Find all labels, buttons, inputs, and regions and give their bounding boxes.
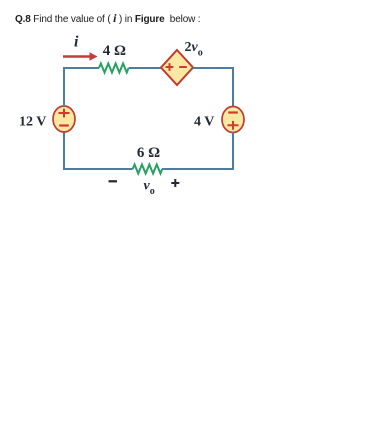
current arrow i <box>63 52 98 60</box>
wire top-left segment <box>64 67 99 69</box>
label 4 ohm <box>103 43 126 59</box>
label vo <box>144 179 155 198</box>
resistor 6ohm zigzag <box>133 165 163 174</box>
svg-text:vo: vo <box>144 179 155 198</box>
label 4 V <box>194 114 214 129</box>
wire left upper segment <box>63 67 65 107</box>
polarity plus for vo <box>171 179 179 187</box>
wire bottom-right segment <box>162 168 233 170</box>
svg-text:2vo: 2vo <box>185 40 203 59</box>
voltage source 4V circle <box>222 107 244 133</box>
dependent source plus sign <box>166 63 174 71</box>
svg-text:4 Ω: 4 Ω <box>103 43 126 59</box>
wire bottom-left segment <box>64 168 133 170</box>
label i current <box>74 34 79 51</box>
label 6 ohm <box>137 145 160 161</box>
wire top-middle segment <box>129 67 161 69</box>
dependent source U1 diamond <box>161 50 193 85</box>
4V source minus sign <box>228 111 238 113</box>
label 12 V <box>19 114 46 129</box>
dependent source minus sign <box>179 66 187 68</box>
svg-text:4 V: 4 V <box>194 114 214 129</box>
12V source plus sign <box>59 109 70 118</box>
resistor 4ohm zigzag <box>99 64 129 73</box>
problem statement text <box>15 11 200 26</box>
svg-text:12 V: 12 V <box>19 114 46 129</box>
wire left lower segment <box>63 132 65 170</box>
svg-text:6 Ω: 6 Ω <box>137 145 160 161</box>
wire top-right segment <box>193 67 233 69</box>
wire right upper segment <box>232 67 234 107</box>
4V source plus sign <box>228 121 239 130</box>
svg-text:i: i <box>74 34 79 51</box>
voltage source 12V circle <box>53 106 75 132</box>
label 2vo <box>185 40 203 59</box>
12V source minus sign <box>59 124 69 126</box>
polarity minus for vo <box>109 180 118 182</box>
wire right lower segment <box>232 132 234 170</box>
